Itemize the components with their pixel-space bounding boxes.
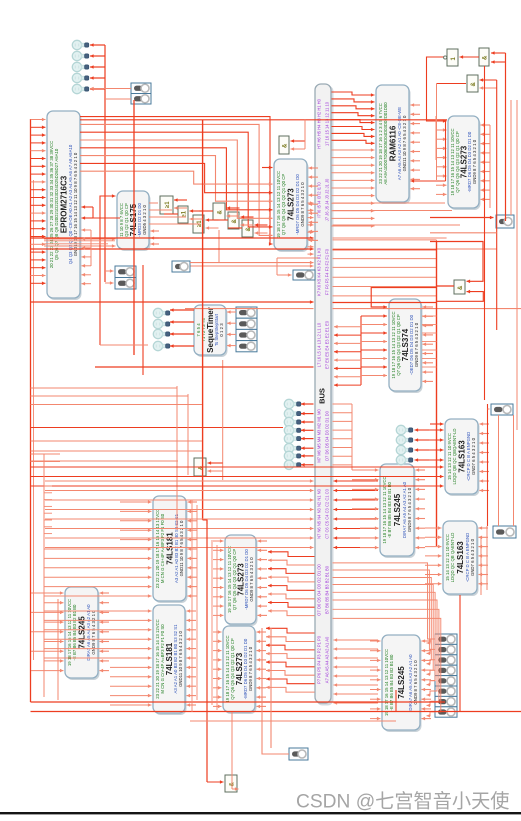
- svg-text:A7 A6 A5 A4 A3 A2 A1 A0: A7 A6 A5 A4 A3 A2 A1 A0: [324, 636, 329, 683]
- wire mid trunk lower: [203, 520, 207, 524]
- and gate U31: [225, 775, 237, 792]
- wire gate U30 feeds: [208, 462, 223, 464]
- wire 74LS175 right outputs to gates: [149, 202, 158, 204]
- wire 273#4: [213, 631, 222, 633]
- svg-text:74LS245: 74LS245: [393, 493, 402, 526]
- wire 245#2: [31, 592, 64, 594]
- switch SW1b: [131, 94, 151, 105]
- 74LS181 U12: [153, 605, 187, 715]
- switch SW9-7: [435, 707, 457, 717]
- svg-text:N7 N6 N5 N4 N3 N2 N1 N0: N7 N6 N5 N4 N3 N2 N1 N0: [316, 488, 321, 539]
- svg-text:C7 C6 C5 C4 C3 C2 C1 C0: C7 C6 C5 C4 C3 C2 C1 C0: [324, 488, 329, 539]
- LED D16: [284, 451, 301, 460]
- svg-text:&: &: [471, 82, 477, 87]
- LED D20: [396, 445, 413, 454]
- svg-text:-E B7 B6 B5 B4 B3 B2 B1 B0: -E B7 B6 B5 B4 B3 B2 B1 B0: [387, 481, 392, 538]
- wire sequencer area: [133, 100, 135, 355]
- and gate U30: [194, 458, 206, 476]
- svg-text:&: &: [483, 55, 489, 60]
- inverter gate U20: [447, 49, 458, 66]
- LED D21: [396, 455, 413, 464]
- and gate U27: [228, 212, 239, 229]
- wire bus left N inputs: [45, 480, 314, 482]
- wire bus right A outputs: [334, 639, 379, 641]
- svg-text:GND9 8 7 6 5 4 3 2 1 0: GND9 8 7 6 5 4 3 2 1 0: [414, 322, 419, 367]
- RAM U4 6116: [376, 85, 411, 204]
- LED D17: [284, 460, 301, 469]
- svg-text:GND9 8 7 6 5 4 3 2 1 0: GND9 8 7 6 5 4 3 2 1 0: [91, 610, 96, 655]
- svg-text:D7 D6 D5 D4 D3 D2 D1 D0: D7 D6 D5 D4 D3 D2 D1 D0: [324, 410, 329, 461]
- wire bus left H/I inputs: [308, 202, 314, 204]
- wire left column bottom bundle: [44, 485, 52, 487]
- or gate U24a: [160, 196, 173, 214]
- EPROM U1 2716: [47, 111, 82, 300]
- LED D14: [284, 434, 301, 443]
- and gate U21: [479, 48, 489, 66]
- svg-text:O7 O6 O5 O4 O3 O2 O1 O0: O7 O6 O5 O4 O3 O2 O1 O0: [316, 563, 321, 615]
- wire S4 link: [430, 217, 494, 219]
- wire switch SW2 feeds: [105, 270, 114, 272]
- wire EPROM CE/OE arrows: [82, 206, 94, 208]
- svg-text:GND9 8 7 6 5 4 3 2 1 0: GND9 8 7 6 5 4 3 2 1 0: [249, 557, 254, 602]
- switch SW9-5: [435, 686, 457, 696]
- switch SW9-1: [435, 644, 457, 654]
- switch SW10: [289, 748, 308, 760]
- svg-text:&: &: [232, 219, 238, 224]
- switch SW2a: [115, 266, 136, 278]
- wire 245#1: [352, 469, 379, 471]
- wire right trunk x484: [484, 66, 486, 400]
- svg-text:74LS245: 74LS245: [397, 666, 406, 699]
- 74LS181 U11: [153, 496, 188, 603]
- svg-text:&: &: [218, 210, 224, 215]
- svg-text:GND9 8 7 6 5 4 3 2 1 0: GND9 8 7 6 5 4 3 2 1 0: [248, 646, 253, 691]
- LED D8: [153, 329, 170, 338]
- svg-text:M CN G Cn+4P A=BF3 F2 F1 F0 S0: M CN G Cn+4P A=BF3 F2 F1 F0 S0: [160, 513, 165, 583]
- wire 374 D feeds from bus E rows: [360, 316, 362, 385]
- LED D3: [72, 62, 88, 71]
- svg-text:M7 M6 M5 M4 M3 M2 M1 M0: M7 M6 M5 M4 M3 M2 M1 M0: [316, 409, 321, 463]
- LED D9: [153, 341, 170, 350]
- and gate U22: [467, 75, 478, 92]
- wire U22 output: [437, 83, 467, 85]
- svg-text:&: &: [458, 285, 464, 290]
- LED D4: [72, 73, 88, 82]
- wire 273#1 CP arrow: [262, 167, 273, 169]
- svg-text:P7 P6 P5 P4 P3 P2 P1 P0: P7 P6 P5 P4 P3 P2 P1 P0: [316, 635, 321, 684]
- wire LED L2 row line: [100, 344, 148, 346]
- wire gate outputs: [164, 213, 178, 215]
- 74LS175 U2: [117, 191, 151, 251]
- svg-text:GND7 6 5 4 3 2 1 0: GND7 6 5 4 3 2 1 0: [470, 538, 475, 576]
- svg-text:GND11 10 9 8 7 6 5 4 3 2 1 0: GND11 10 9 8 7 6 5 4 3 2 1 0: [402, 115, 407, 171]
- wire left trunk: [30, 119, 32, 702]
- svg-text:GND9 8 7 6 5 4 3 2 1 0: GND9 8 7 6 5 4 3 2 1 0: [413, 660, 418, 705]
- or gate U24: [178, 206, 188, 223]
- wire left-mid bundle: [31, 387, 178, 389]
- LED D2: [72, 51, 88, 60]
- svg-text:A8 A9A10D07D06D05D04D03D02D01D: A8 A9A10D07D06D05D04D03D02D01D00: [383, 102, 388, 185]
- 74LS245 U9: [380, 464, 416, 558]
- 74LS273 U3: [274, 159, 309, 252]
- svg-text:I7 I6 I5 I4 I3 I2 I1 I0: I7 I6 I5 I4 I3 I2 I1 I0: [316, 182, 321, 218]
- wire long y117: [80, 119, 447, 121]
- 74LS245 U16: [382, 635, 422, 732]
- wire bus left M inputs (LED col): [301, 403, 314, 405]
- wire bus right D outputs: [333, 403, 353, 405]
- wire EPROM Q staircase to 74LS273: [80, 117, 273, 244]
- wire bottom long lines: [31, 701, 446, 703]
- LED D7: [153, 319, 170, 328]
- bottom border line: [0, 812, 521, 814]
- LED D11: [284, 409, 301, 418]
- switch SW3-0: [236, 307, 257, 318]
- wire 273#1 right stubs: [309, 167, 319, 169]
- wire bus to RAM data: [332, 149, 375, 151]
- wire bus J rows right: [333, 202, 446, 204]
- LED D18: [396, 425, 413, 434]
- wire gate cluster feeds: [202, 120, 204, 520]
- wire 181#1: [120, 501, 152, 503]
- wire long y238 y249: [31, 237, 314, 239]
- switch SW9-4: [435, 676, 457, 686]
- svg-text:GND7 6 5 4 3 2 1 0: GND7 6 5 4 3 2 1 0: [471, 437, 476, 475]
- wire bus F rows to right: [333, 239, 437, 241]
- svg-text:-E B7 B6 B5 B4 B3 B2 B1 B0: -E B7 B6 B5 B4 B3 B2 B1 B0: [72, 604, 77, 661]
- LED D12: [284, 417, 301, 426]
- switch SW9-2: [435, 655, 457, 665]
- wire 245#2 left vertical: [57, 599, 59, 700]
- wire seq area long line: [95, 366, 314, 368]
- wire S10 loop: [277, 257, 318, 259]
- wire sequencer switches: [227, 311, 236, 313]
- svg-text:74LS163: 74LS163: [456, 541, 465, 574]
- svg-text:B7 B6 B5 B4 B3 B2 B1 B0: B7 B6 B5 B4 B3 B2 B1 B0: [324, 565, 329, 614]
- wire 245#3: [370, 640, 381, 642]
- or gate U25: [193, 215, 204, 233]
- LED D13: [284, 426, 301, 435]
- svg-text:≥1: ≥1: [165, 201, 171, 208]
- wire 74LS175 left feeds: [100, 196, 116, 210]
- LED D19: [396, 435, 413, 444]
- and gate U26: [213, 203, 225, 220]
- svg-text:H7 H6 H5 H4 H3 H2 H1 H0: H7 H6 H5 H4 H3 H2 H1 H0: [316, 98, 321, 149]
- LED D6: [153, 308, 170, 317]
- 74LS245 U15: [65, 587, 100, 680]
- gate U20 bubble: [444, 56, 447, 59]
- wire 273#3: [213, 540, 224, 542]
- wire LED column 1 feed: [104, 45, 106, 282]
- LED D5: [72, 84, 88, 93]
- svg-text:L7 L6 L5 L4 L3 L2 L1 L0: L7 L6 L5 L4 L3 L2 L1 L0: [316, 322, 321, 367]
- svg-text:17 16 15 14 13 12 11 10: 17 16 15 14 13 12 11 10: [324, 101, 329, 146]
- and gate U23: [279, 136, 289, 154]
- svg-text:GND9 8 7 6 5 4 3 2 1 0: GND9 8 7 6 5 4 3 2 1 0: [407, 487, 412, 532]
- wire gate U23 feeds: [291, 140, 306, 142]
- wire bus right B rows: [333, 563, 432, 639]
- svg-text:BUS: BUS: [318, 388, 327, 404]
- LED D15: [284, 444, 301, 453]
- svg-text:≥1: ≥1: [182, 210, 188, 217]
- svg-text:F7 F6 F5 F4 F3 F2 F1 F0: F7 F6 F5 F4 F3 F2 F1 F0: [324, 248, 329, 295]
- 74LS273 U5: [448, 116, 481, 210]
- svg-text:&: &: [283, 143, 289, 148]
- LED D1: [72, 40, 88, 49]
- wire EPROM left stubs: [31, 119, 46, 121]
- wire 163#1 feeds: [430, 423, 444, 425]
- LED D10: [284, 399, 301, 408]
- wire EPROM lower right arrows: [82, 229, 92, 231]
- wire 374 right stubs: [423, 306, 434, 308]
- switch SW9-3: [435, 665, 457, 675]
- wire top right gates: [505, 53, 507, 221]
- wire switch SW1 links: [90, 88, 131, 90]
- wire bus right C arrows: [334, 480, 379, 482]
- wire switch col feeds: [427, 639, 436, 643]
- wire y117 drop: [445, 120, 447, 181]
- 74LS273 U14: [223, 626, 257, 714]
- svg-text:Q7 Q6 Q5 Q4 Q3 Q2 Q1 Q0 CP: Q7 Q6 Q5 Q4 Q3 Q2 Q1 Q0 CP: [281, 174, 286, 236]
- svg-text:GND9 8 7 6 5 4 3 2 1 0: GND9 8 7 6 5 4 3 2 1 0: [472, 139, 477, 184]
- switch SW8: [493, 526, 516, 538]
- and gate U28: [242, 220, 253, 237]
- switch SW2b: [115, 278, 136, 290]
- BUS net: [315, 84, 334, 706]
- wire gate U29 feeds: [430, 242, 483, 282]
- 74LS163 U10: [443, 521, 479, 596]
- wire bus to RAM address: [332, 92, 375, 95]
- svg-text:0 1 2 3: 0 1 2 3: [219, 323, 224, 337]
- switch SW4: [172, 261, 190, 272]
- svg-text:J7 J6 J5 J4 J3 J2 J1 J0: J7 J6 J5 J4 J3 J2 J1 J0: [324, 178, 329, 221]
- svg-text:E7 E6 E5 E4 E3 E2 E1 E0: E7 E6 E5 E4 E3 E2 E1 E0: [324, 320, 329, 369]
- switch SW6: [496, 215, 514, 228]
- and gate U29: [454, 280, 465, 294]
- svg-text:GND5 4 3 2 1 0: GND5 4 3 2 1 0: [142, 204, 147, 234]
- 74LS273 U13: [225, 535, 258, 626]
- switch SW5: [293, 270, 315, 280]
- wire 181#2: [44, 610, 152, 612]
- wire right lower verticals: [459, 595, 461, 712]
- switch SW3-2: [236, 329, 257, 340]
- switch SW1a: [131, 83, 151, 94]
- svg-text:CSDN @七宫智音小天使: CSDN @七宫智音小天使: [296, 791, 510, 813]
- svg-text:GND11 10 9 8 7 6 5 4 3 2 1 0: GND11 10 9 8 7 6 5 4 3 2 1 0: [178, 630, 183, 686]
- wire bus O rows to 273#3: [268, 552, 315, 557]
- svg-text:LDQD QC QB QAENT-LD: LDQD QC QB QAENT-LD: [450, 533, 455, 583]
- wire bus P rows to 273#4: [266, 628, 315, 633]
- wire 163#2 feeds: [425, 527, 442, 529]
- svg-text:GND9 8 7 6 5 4 3 2 1 0: GND9 8 7 6 5 4 3 2 1 0: [300, 182, 305, 227]
- switch SW3-1: [236, 318, 257, 329]
- 74LS374 U7: [389, 299, 423, 393]
- switch SW7: [491, 404, 513, 415]
- wire right edge verticals: [516, 100, 518, 430]
- wire 374 CP loop: [371, 288, 436, 307]
- SequeTimer U6: [194, 305, 228, 357]
- switch SW9-0: [435, 634, 457, 644]
- wire RAM right stubs: [411, 104, 421, 106]
- switch SW3-3: [236, 341, 257, 352]
- switch SW9-6: [435, 696, 457, 706]
- wire 273#2 left feeds: [436, 129, 447, 131]
- 74LS163 U8: [445, 419, 480, 496]
- svg-text:LDQD QB QC QBQAENT-LD: LDQD QB QC QBQAENT-LD: [452, 429, 457, 485]
- svg-text:K7 K6 K5 K4 K3 K2 K1 K0: K7 K6 K5 K4 K3 K2 K1 K0: [316, 247, 321, 296]
- wire 273#2 right stubs: [481, 124, 491, 126]
- wire bottom area: [206, 520, 208, 782]
